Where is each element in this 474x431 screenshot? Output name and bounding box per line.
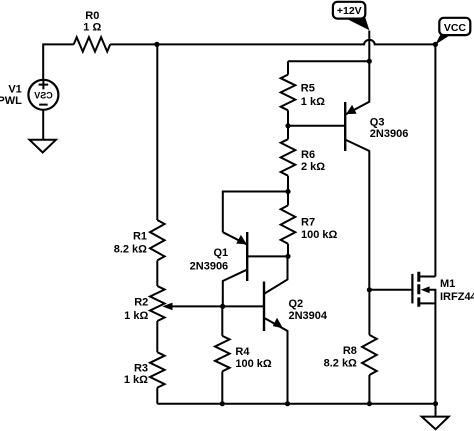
transistor Q3 2N3906 [288, 61, 369, 290]
svg-text:1 Ω: 1 Ω [83, 21, 101, 33]
wire V1 bottom to ground [42, 110, 44, 140]
svg-text:V1: V1 [8, 83, 21, 95]
svg-text:R3: R3 [134, 362, 148, 374]
junction dot R7/Q1 base/Q2 collector [285, 254, 290, 259]
junction dot Q1 collector/R4/wiper [220, 304, 225, 309]
junction dot bottom rail R8 [367, 401, 372, 406]
svg-text:2 kΩ: 2 kΩ [301, 161, 325, 173]
junction dot bottom rail Q2 emitter [285, 401, 290, 406]
junction dot bottom rail ground [433, 401, 438, 406]
svg-text:Q3: Q3 [370, 116, 385, 128]
svg-text:Q2: Q2 [289, 298, 304, 310]
wire R6/R7 node to Q1 emitter [223, 192, 288, 233]
R2 wiper arrow [170, 305, 223, 307]
svg-text:8.2 kΩ: 8.2 kΩ [114, 244, 147, 256]
resistor R4 [221, 306, 223, 336]
node label +12V [333, 2, 370, 30]
svg-text:1 kΩ: 1 kΩ [301, 96, 325, 108]
svg-text:R2: R2 [134, 297, 148, 309]
junction dot +12V node [367, 59, 372, 64]
svg-text:2N3906: 2N3906 [190, 261, 229, 273]
wire node to R5 top [288, 60, 369, 62]
resistor R3 [156, 321, 158, 352]
potentiometer R2 [150, 286, 165, 321]
wire R0 to VCC with hop over +12V line [110, 40, 435, 45]
resistor R5 [287, 61, 289, 74]
svg-text:IRFZ44: IRFZ44 [440, 291, 474, 303]
svg-text:100 kΩ: 100 kΩ [235, 358, 272, 370]
resistor R0 [74, 37, 111, 51]
svg-text:PWL: PWL [0, 95, 22, 107]
svg-text:CSV: CSV [34, 90, 53, 100]
junction dot R5/R6/Q3 base [285, 123, 290, 128]
svg-text:VCC: VCC [444, 22, 467, 34]
junction dot R6/R7/Q1 emitter [285, 189, 290, 194]
svg-text:R7: R7 [301, 217, 315, 229]
resistor R8 [368, 290, 370, 335]
MOSFET M1 IRFZ44 [369, 272, 435, 404]
ground (below V1) [30, 140, 56, 153]
svg-text:2N3906: 2N3906 [370, 128, 409, 140]
svg-text:R0: R0 [85, 10, 99, 22]
voltage source V1 [28, 80, 58, 110]
ground (bottom right) [435, 404, 437, 417]
transistor Q2 2N3904 [223, 256, 288, 403]
node label VCC [435, 18, 470, 45]
wire VCC rail down to M1 drain [434, 44, 436, 276]
wire +12V tail down to node [368, 31, 370, 62]
junction dot VCC corner [433, 42, 438, 47]
svg-text:100 kΩ: 100 kΩ [301, 229, 338, 241]
svg-text:Q1: Q1 [214, 247, 229, 259]
svg-text:+12V: +12V [337, 5, 362, 17]
svg-text:2N3904: 2N3904 [289, 310, 328, 322]
svg-text:1 kΩ: 1 kΩ [124, 310, 148, 322]
svg-text:M1: M1 [440, 278, 455, 290]
svg-text:R8: R8 [343, 345, 357, 357]
junction dot top rail / R1 [154, 42, 159, 47]
svg-text:R4: R4 [235, 346, 250, 358]
junction dot M1 gate/R8/Q3 collector [367, 287, 372, 292]
svg-text:R6: R6 [301, 149, 315, 161]
transistor Q1 2N3906 [223, 232, 288, 306]
svg-text:R5: R5 [301, 82, 315, 94]
resistor R6 [281, 139, 296, 176]
wire V1 top to R0 left [43, 44, 73, 79]
svg-text:R1: R1 [133, 230, 147, 242]
svg-text:1 kΩ: 1 kΩ [124, 374, 148, 386]
wire bottom rail [157, 403, 435, 405]
junction dot bottom rail R4 [220, 401, 225, 406]
svg-text:8.2 kΩ: 8.2 kΩ [324, 358, 357, 370]
resistor R1 [156, 44, 158, 220]
resistor R7 [281, 205, 296, 243]
